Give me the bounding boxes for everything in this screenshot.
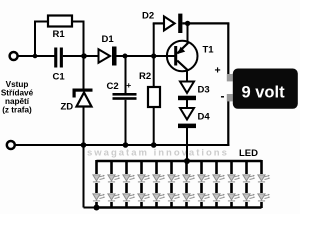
- wire collector to D3: [186, 70, 188, 83]
- wire LED column 8 top stub: [200, 160, 203, 174]
- node LED bottom left: [94, 205, 100, 211]
- svg-text:-: -: [221, 89, 225, 103]
- battery B1 9 volt: [215, 65, 298, 109]
- LED D3b row 2 column 3: [123, 194, 135, 201]
- LED D8a row 1 column 8: [198, 175, 210, 182]
- wire LED column 3 top stub: [125, 160, 128, 174]
- wire R2 branch rail to main: [153, 23, 155, 56]
- node J5: [185, 21, 190, 26]
- wire ZD to bottom bus: [83, 107, 85, 146]
- LED D2b row 2 column 2: [108, 194, 120, 201]
- wire LED column 1 middle stub: [95, 183, 98, 193]
- wire emitter vertical: [187, 23, 189, 43]
- wire LED column 5 top stub: [155, 160, 158, 174]
- svg-text:ZD: ZD: [61, 102, 74, 113]
- wire R2 to bottom bus: [153, 107, 155, 145]
- wire battery plus drop: [227, 23, 229, 74]
- LED D7a row 1 column 7: [183, 175, 195, 182]
- LED D9b row 2 column 9: [213, 194, 225, 201]
- label input Vstup: [1, 80, 34, 115]
- wire battery minus drop: [227, 101, 229, 146]
- wire LED column 7 bottom stub: [185, 202, 188, 208]
- LED D3a row 1 column 3: [123, 175, 135, 182]
- wire C1 to D1: [63, 55, 99, 57]
- wire LED column 12 bottom stub: [260, 202, 263, 208]
- svg-text:9 volt: 9 volt: [242, 84, 286, 102]
- wire LED column 10 top stub: [230, 160, 233, 174]
- svg-text:D3: D3: [198, 85, 210, 96]
- wire LED column 11 middle stub: [245, 183, 248, 193]
- wire D3 to D4: [186, 100, 188, 109]
- LED D12b row 2 column 12: [258, 194, 270, 201]
- transistor T1: [167, 41, 214, 72]
- wire LED column 6 top stub: [170, 160, 173, 174]
- wire LED column 11 top stub: [245, 160, 248, 174]
- svg-text:D2: D2: [142, 11, 154, 22]
- wire C2 to bottom bus: [125, 100, 127, 145]
- wire LED column 7 middle stub: [185, 183, 188, 193]
- svg-text:C2: C2: [107, 81, 119, 92]
- wire R1 branch left vertical: [34, 22, 36, 57]
- LED D9a row 1 column 9: [213, 175, 225, 182]
- svg-text:+: +: [215, 65, 221, 77]
- wire LED return vertical: [83, 145, 85, 208]
- wire LED column 7 top stub: [185, 160, 188, 174]
- terminal input top: [10, 52, 18, 60]
- zener diode ZD: [61, 89, 93, 113]
- diode D4: [178, 108, 210, 128]
- wire LED column 4 middle stub: [140, 183, 143, 193]
- wire LED column 1 bottom stub: [95, 202, 98, 208]
- LED D1b row 2 column 1: [93, 194, 105, 201]
- wire LED column 8 middle stub: [200, 183, 203, 193]
- node bus R2: [151, 142, 157, 148]
- wire top rail left: [153, 22, 164, 24]
- wire LED column 2 middle stub: [110, 183, 113, 193]
- LED D10b row 2 column 10: [228, 194, 240, 201]
- node J2: [81, 53, 87, 59]
- wire LED column 8 bottom stub: [200, 202, 203, 208]
- svg-text:C1: C1: [53, 71, 66, 82]
- wire R2 branch main to box: [153, 56, 155, 87]
- LED array buses: [97, 161, 262, 208]
- node J4: [151, 53, 156, 58]
- LED D6a row 1 column 6: [168, 175, 180, 182]
- wire LED column 11 bottom stub: [245, 202, 248, 208]
- svg-text:swagatam innovations: swagatam innovations: [87, 148, 229, 159]
- node bus C2: [123, 142, 129, 148]
- LED D8b row 2 column 8: [198, 194, 210, 201]
- wire D1 to T1 base: [117, 55, 177, 57]
- resistor R2: [139, 71, 160, 107]
- wire LED column 9 bottom stub: [215, 202, 218, 208]
- node J1: [33, 54, 38, 59]
- svg-text:LED: LED: [239, 148, 258, 159]
- LED D10a row 1 column 10: [228, 175, 240, 182]
- svg-text:D1: D1: [102, 34, 115, 45]
- diode D2: [142, 11, 182, 34]
- resistor R1: [48, 16, 72, 41]
- wire input to C1: [18, 55, 55, 57]
- wire LED column 5 bottom stub: [155, 202, 158, 208]
- wire LED column 9 top stub: [215, 160, 218, 174]
- diode D1: [99, 34, 117, 66]
- svg-text:(z trafa): (z trafa): [2, 106, 32, 115]
- wire ZD branch vertical upper: [83, 56, 85, 89]
- LED D11b row 2 column 11: [243, 194, 255, 201]
- wire LED column 2 top stub: [110, 160, 113, 174]
- wire bottom bus: [15, 144, 230, 146]
- wire LED column 5 middle stub: [155, 183, 158, 193]
- LED D5b row 2 column 5: [153, 194, 165, 201]
- wire top rail right: [182, 22, 229, 24]
- wire LED column 12 middle stub: [260, 183, 263, 193]
- LED D11a row 1 column 11: [243, 175, 255, 182]
- wire LED column 3 middle stub: [125, 183, 128, 193]
- wire LED column 6 middle stub: [170, 183, 173, 193]
- svg-text:T1: T1: [203, 45, 215, 56]
- LED D1a row 1 column 1: [93, 175, 105, 182]
- LED D7b row 2 column 7: [183, 194, 195, 201]
- wire LED column 2 bottom stub: [110, 202, 113, 208]
- wire LED return horizontal: [84, 207, 97, 209]
- svg-text:R1: R1: [53, 29, 66, 40]
- terminal input bottom: [7, 141, 15, 149]
- svg-text:+: +: [126, 80, 131, 90]
- LED D4b row 2 column 4: [138, 194, 150, 201]
- node bus ZD: [81, 142, 87, 148]
- wire LED column 4 bottom stub: [140, 202, 143, 208]
- wire D4 to LED bus: [186, 128, 188, 161]
- svg-text:D4: D4: [198, 112, 211, 123]
- LED D2a row 1 column 2: [108, 175, 120, 182]
- wire LED column 1 top stub: [95, 160, 98, 174]
- wire R1 branch top right: [72, 21, 84, 23]
- node LED top: [184, 158, 190, 164]
- LED D12a row 1 column 12: [258, 175, 270, 182]
- wire LED column 9 middle stub: [215, 183, 218, 193]
- node J3: [123, 54, 128, 59]
- wire LED column 12 top stub: [260, 160, 263, 174]
- wire C2 branch upper: [125, 56, 127, 93]
- wire LED column 3 bottom stub: [125, 202, 128, 208]
- diode D3: [178, 82, 210, 101]
- LED D5a row 1 column 5: [153, 175, 165, 182]
- svg-text:R2: R2: [139, 71, 151, 82]
- LED D4a row 1 column 4: [138, 175, 150, 182]
- wire LED column 10 bottom stub: [230, 202, 233, 208]
- wire LED column 6 bottom stub: [170, 202, 173, 208]
- wire R1 branch top left: [34, 21, 48, 23]
- capacitor C1: [53, 48, 66, 83]
- wire R1 branch right vertical: [83, 21, 85, 57]
- wire LED column 4 top stub: [140, 160, 143, 174]
- LED D6b row 2 column 6: [168, 194, 180, 201]
- capacitor C2: [107, 80, 137, 100]
- wire LED column 10 middle stub: [230, 183, 233, 193]
